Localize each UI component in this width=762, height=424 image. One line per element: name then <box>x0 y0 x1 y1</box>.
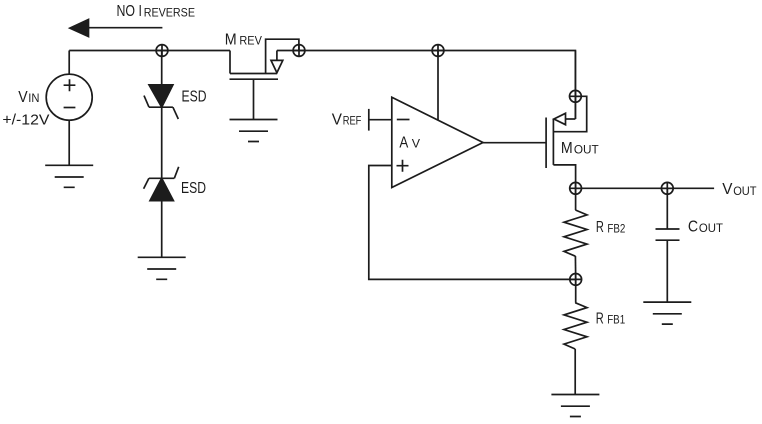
MREV body hook <box>266 39 299 73</box>
wire op-amp output <box>483 142 546 144</box>
wire op-amp supply <box>437 51 439 121</box>
op-amp minus sign <box>397 119 410 121</box>
svg-text:FB1: FB1 <box>607 315 625 327</box>
MOUT gate bar <box>545 118 547 169</box>
node D feedback tap <box>570 274 582 286</box>
resistor R_FB2 <box>564 210 587 256</box>
svg-text:OUT: OUT <box>574 144 599 156</box>
node B after MREV <box>293 45 305 57</box>
svg-text:OUT: OUT <box>699 223 723 235</box>
wire ESD2 to ground <box>161 201 163 258</box>
svg-text:ESD: ESD <box>182 88 207 105</box>
ground VIN <box>45 165 93 187</box>
svg-text:M: M <box>561 140 573 157</box>
node E at MOUT source <box>570 90 582 102</box>
wire ESD1 to ESD2 <box>161 107 163 178</box>
wire plus input <box>369 166 576 280</box>
svg-text:OUT: OUT <box>733 186 756 198</box>
ground ESD <box>138 257 186 279</box>
svg-text:+/-12V: +/-12V <box>2 111 49 128</box>
MREV gate stem <box>253 79 255 119</box>
capacitor C_OUT <box>656 228 680 230</box>
node C above op-amp <box>432 45 444 57</box>
svg-text:IN: IN <box>28 93 39 105</box>
svg-text:REVERSE: REVERSE <box>144 6 195 20</box>
wire VREF input <box>369 119 392 121</box>
svg-text:R: R <box>596 310 604 327</box>
MOUT source arrow <box>566 118 576 120</box>
svg-text:V: V <box>18 89 28 106</box>
wire VOUT rail <box>576 187 715 189</box>
MREV arrow <box>276 51 278 61</box>
ground COUT <box>643 302 691 324</box>
svg-text:V: V <box>412 139 421 151</box>
svg-text:ESD: ESD <box>181 180 206 197</box>
wire top rail left segment <box>69 50 230 52</box>
wire node A to ESD1 <box>161 51 163 85</box>
ground MREV gate <box>230 120 278 142</box>
svg-text:V: V <box>332 111 343 128</box>
ground RFB1 <box>551 395 599 417</box>
wire VIN bottom lead <box>68 120 70 165</box>
source V_IN <box>46 74 92 120</box>
wire MREV source drop <box>229 51 231 74</box>
wire node F to RFB2 <box>575 188 577 210</box>
MOUT drain wire <box>553 165 575 188</box>
wire COUT bottom lead <box>666 240 668 302</box>
svg-text:REV: REV <box>239 36 262 48</box>
ESD diode D1 <box>149 85 173 107</box>
wire top rail right segment <box>277 51 576 120</box>
node G above COUT <box>661 182 673 194</box>
resistor R_FB1 <box>564 303 587 349</box>
MREV channel bar <box>230 73 277 75</box>
svg-text:FB2: FB2 <box>607 223 625 235</box>
MOUT source wire up <box>574 51 576 120</box>
op-amp plus sign <box>397 160 409 172</box>
MOUT channel bar <box>552 119 554 165</box>
svg-text:REF: REF <box>343 116 362 128</box>
svg-text:V: V <box>722 181 733 198</box>
node F at MOUT drain / VOUT <box>570 182 582 194</box>
svg-text:M: M <box>225 31 237 48</box>
ESD diode D2 <box>149 177 174 179</box>
svg-text:A: A <box>399 134 408 151</box>
wire COUT top lead <box>666 188 668 229</box>
op-amp A_V <box>392 97 483 187</box>
node A top rail over ESD <box>156 45 168 57</box>
arrow NO I reverse <box>85 27 162 29</box>
svg-text:C: C <box>688 218 698 235</box>
MREV gate bar <box>230 78 279 80</box>
wire RFB2 to node D <box>574 256 576 279</box>
wire node D to RFB1 <box>575 279 577 302</box>
VREF input tick <box>368 109 370 131</box>
svg-text:R: R <box>596 219 604 236</box>
svg-text:NO I: NO I <box>117 3 142 20</box>
wire RFB1 to ground <box>574 349 576 395</box>
MOUT body hook <box>553 96 586 131</box>
wire VIN top lead <box>68 51 70 75</box>
